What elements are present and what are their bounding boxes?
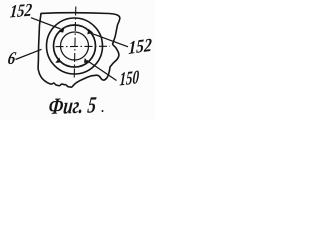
svg-text:152: 152 — [9, 0, 33, 22]
svg-text:Фиг. 5: Фиг. 5 — [47, 91, 97, 119]
svg-text:152: 152 — [128, 35, 152, 59]
svg-text:150: 150 — [119, 67, 140, 91]
svg-text:6: 6 — [6, 48, 18, 68]
